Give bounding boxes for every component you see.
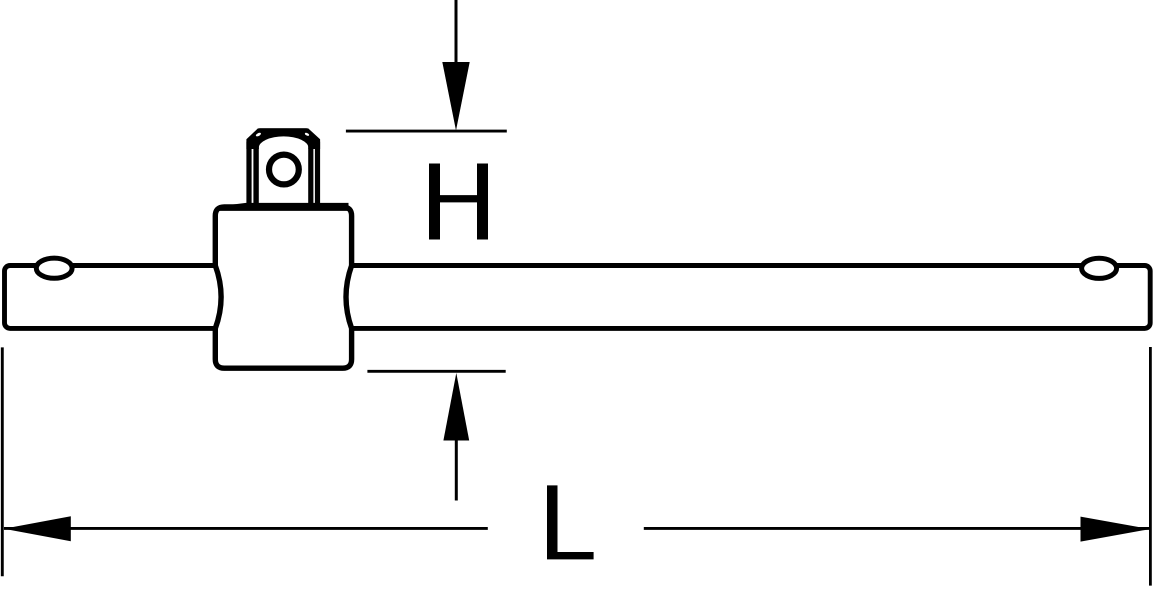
H dimension lower reference line (367, 370, 505, 373)
left end hole ellipse (36, 258, 72, 278)
L dimension line right segment (644, 527, 1149, 530)
square drive top face white crescent (259, 136, 309, 159)
square drive outer contour (249, 131, 318, 209)
square drive chamfered top cap (246, 128, 320, 149)
right end hole ellipse (1082, 258, 1117, 278)
H dimension down arrowhead (442, 62, 469, 131)
H dimension up arrowhead (443, 373, 469, 441)
L dimension left extension line (1, 347, 4, 576)
H dimension upper reference line (346, 130, 507, 133)
square drive inner side line right (308, 138, 313, 209)
sliding T-bar shaft (5, 266, 1151, 329)
slider block top shoulder band (217, 203, 349, 211)
L left arrowhead (4, 516, 71, 541)
H dimension bottom leader line (455, 439, 458, 501)
square drive corner highlight left (255, 132, 261, 137)
detent ball hole (269, 155, 299, 185)
label L (547, 485, 594, 559)
L right arrowhead (1081, 517, 1150, 542)
H dimension top leader line (455, 0, 458, 64)
L dimension right extension line (1149, 347, 1152, 586)
square drive corner highlight right (304, 132, 309, 136)
L dimension line left segment (4, 527, 488, 530)
square drive inner side line left (253, 138, 258, 209)
label H (429, 164, 488, 240)
slider stop block (215, 207, 351, 368)
